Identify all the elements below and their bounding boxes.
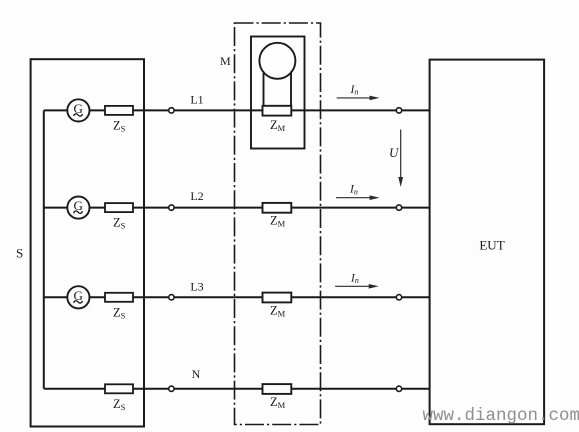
resistor ZS (N) (105, 384, 133, 412)
resistor ZM (L2) (263, 203, 292, 229)
svg-text:L1: L1 (190, 93, 203, 107)
resistor ZS (L1) (105, 106, 133, 133)
measuring instrument box (inside M) (251, 37, 305, 149)
generator G (L3) (67, 286, 89, 308)
meter shaft (264, 72, 292, 106)
EUT box (430, 60, 544, 425)
wire L3 (44, 296, 430, 298)
resistor ZM (L1) (263, 106, 292, 133)
arrow U (voltage, vertical) (389, 130, 403, 187)
svg-text:L2: L2 (190, 189, 203, 203)
wire N (44, 388, 430, 390)
resistor ZM (L3) (263, 293, 292, 319)
terminal L1 left (169, 108, 174, 113)
generator G (L2) (67, 197, 89, 219)
svg-text:S: S (16, 246, 23, 261)
terminal L3 right (396, 295, 401, 300)
terminal N left (169, 386, 174, 391)
resistor ZS (L3) (105, 293, 133, 321)
arrow In (L2) (336, 184, 380, 200)
svg-text:L3: L3 (190, 280, 203, 294)
arrow In (L1) (337, 84, 380, 100)
svg-text:N: N (192, 367, 201, 381)
arrow In (L3) (335, 272, 379, 288)
wire L2 (44, 207, 430, 209)
source block S (31, 59, 144, 426)
wire bus (generator common) (43, 110, 45, 388)
terminal L2 right (396, 205, 401, 210)
resistor ZS (L2) (105, 203, 133, 231)
measuring network box M (dashed) (235, 23, 321, 425)
terminal N right (396, 386, 401, 391)
svg-text:EUT: EUT (479, 238, 504, 253)
terminal L2 left (169, 205, 174, 210)
svg-text:U: U (389, 145, 400, 160)
meter circle (259, 43, 295, 79)
resistor ZM (N) (263, 384, 292, 410)
generator G (L1) (67, 99, 89, 121)
svg-text:www.diangon.com: www.diangon.com (423, 406, 579, 426)
wire L1 (44, 109, 430, 111)
svg-text:M: M (220, 54, 231, 68)
terminal L3 left (169, 295, 174, 300)
terminal L1 right (396, 108, 401, 113)
